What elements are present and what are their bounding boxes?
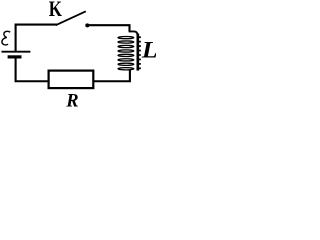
inductor L coil turn 4 <box>118 50 134 52</box>
wire foot into coil core <box>129 31 138 35</box>
wire top-left: battery up to corner and right to switch <box>16 25 57 52</box>
inductor L coil turn 6 <box>118 59 134 61</box>
inductor L core line <box>137 34 140 71</box>
inductor L coil turn 8 <box>118 68 134 70</box>
switch K blade <box>56 11 86 25</box>
inductor L coil turn 2 right tail <box>139 41 141 43</box>
inductor L coil turn 8 right tail <box>139 67 141 69</box>
wire resistor left to bottom-left corner and up to battery <box>16 58 49 81</box>
inductor L coil turn 4 right tail <box>139 50 141 52</box>
EMF script E label <box>2 31 10 45</box>
inductor L coil turn 1 right tail <box>139 36 141 38</box>
inductor L coil turn 6 right tail <box>139 58 141 60</box>
battery short thick plate <box>8 55 22 58</box>
inductor L coil turn 1 <box>118 37 134 39</box>
inductor L coil turn 7 right tail <box>139 63 141 65</box>
svg-text:L: L <box>141 38 156 63</box>
inductor L coil turn 7 <box>118 63 134 65</box>
resistor R box <box>49 71 94 89</box>
switch K right contact dot <box>85 23 89 27</box>
inductor L coil turn 3 right tail <box>139 45 141 47</box>
inductor L coil turn 2 <box>118 41 134 43</box>
battery long plate <box>2 51 31 53</box>
wire switch to top-right corner <box>87 25 130 31</box>
svg-text:K: K <box>49 0 62 21</box>
inductor L coil turn 5 right tail <box>139 54 141 56</box>
inductor L coil turn 5 <box>118 54 134 56</box>
inductor L coil turn 3 <box>118 45 134 47</box>
wire coil bottom down to bottom wire <box>94 69 130 81</box>
svg-text:R: R <box>65 92 78 112</box>
